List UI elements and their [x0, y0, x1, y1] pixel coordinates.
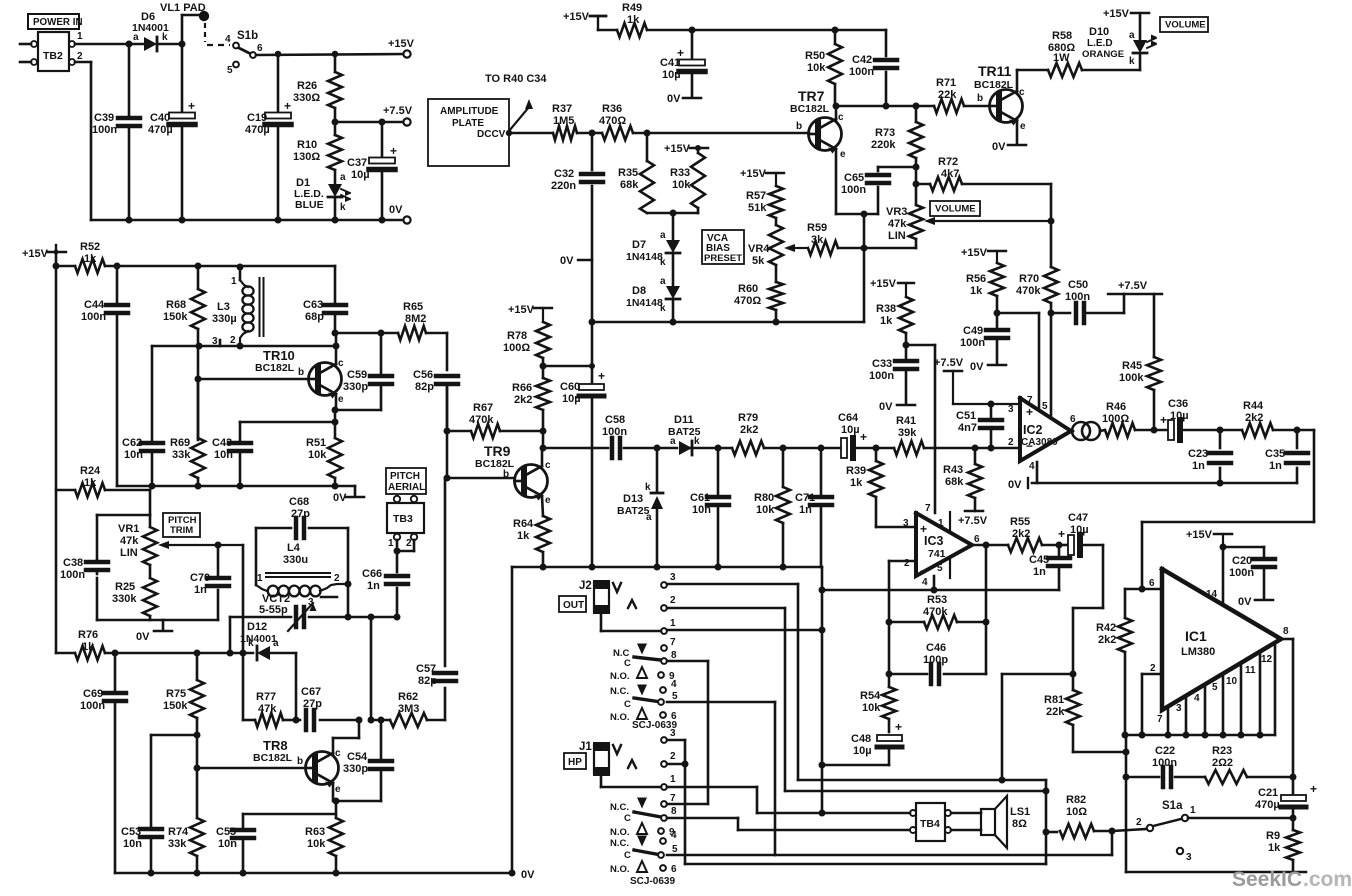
svg-text:100n: 100n: [1152, 757, 1177, 769]
wire: [672, 299, 675, 322]
svg-text:1M5: 1M5: [553, 115, 574, 127]
svg-text:470Ω: 470Ω: [734, 295, 761, 307]
wire: [785, 790, 1046, 793]
node watermark: [1232, 868, 1352, 891]
svg-text:R80: R80: [754, 492, 774, 504]
capacitor C23: [1188, 430, 1231, 483]
svg-text:470µ: 470µ: [1255, 799, 1280, 811]
resistor R80: [754, 448, 790, 567]
resistor R52: [56, 241, 335, 273]
svg-text:b: b: [298, 367, 304, 378]
wire: [1073, 545, 1103, 674]
wire: [667, 584, 798, 780]
junction: [1139, 586, 1146, 593]
svg-text:R45: R45: [1122, 360, 1142, 372]
wire: [446, 386, 449, 478]
svg-text:100k: 100k: [1119, 372, 1144, 384]
wire: [798, 779, 1046, 782]
svg-text:C39: C39: [94, 112, 114, 124]
svg-text:8: 8: [671, 650, 677, 661]
svg-text:3: 3: [670, 572, 676, 583]
svg-text:1: 1: [670, 774, 676, 785]
svg-text:150k: 150k: [163, 311, 188, 323]
svg-text:100n: 100n: [841, 184, 866, 196]
svg-text:10µ: 10µ: [1070, 524, 1089, 536]
svg-text:22k: 22k: [1046, 706, 1065, 718]
junction: [345, 581, 375, 621]
svg-text:C40: C40: [150, 112, 170, 124]
svg-text:k: k: [340, 202, 346, 213]
svg-text:a: a: [340, 172, 346, 183]
svg-text:TR11: TR11: [978, 63, 1012, 79]
svg-text:e: e: [840, 149, 846, 160]
svg-text:5: 5: [937, 563, 943, 574]
node 0V: [992, 141, 1026, 153]
svg-text:C59: C59: [347, 369, 367, 381]
wire: [972, 544, 986, 547]
svg-text:100n: 100n: [60, 569, 85, 581]
diode D13: [617, 448, 663, 567]
svg-text:R59: R59: [807, 222, 827, 234]
wire: [667, 661, 708, 804]
svg-text:100n: 100n: [849, 66, 874, 78]
wire pin7: [1157, 707, 1168, 735]
junction: [196, 343, 340, 350]
resistor R78: [503, 322, 550, 366]
svg-text:R26: R26: [297, 80, 317, 92]
svg-text:C50: C50: [1068, 279, 1088, 291]
junction: [112, 650, 247, 657]
connector TB4: [910, 803, 951, 841]
transistor TR9: [475, 443, 551, 506]
junction: [1290, 815, 1297, 822]
wire pin8: [1281, 626, 1293, 777]
junction: [1217, 480, 1224, 487]
svg-text:L4: L4: [287, 542, 301, 554]
svg-text:AERIAL: AERIAL: [388, 482, 425, 493]
junction: [540, 428, 547, 452]
resistor R43: [943, 448, 982, 511]
svg-text:7: 7: [670, 637, 676, 648]
svg-text:IC1: IC1: [1185, 628, 1207, 644]
capacitor C55: [216, 814, 336, 873]
svg-text:+: +: [1310, 782, 1317, 796]
svg-text:LS1: LS1: [1010, 806, 1030, 818]
svg-text:1W: 1W: [1053, 52, 1070, 64]
capacitor C67: [296, 686, 359, 730]
svg-text:C68: C68: [289, 496, 309, 508]
svg-text:6: 6: [671, 864, 677, 875]
LED D1: [294, 172, 351, 220]
node VOLUME label: [930, 201, 980, 216]
wire pin6: [1125, 578, 1162, 589]
wire: [397, 540, 414, 551]
resistor R25: [112, 578, 157, 620]
junction: [670, 210, 677, 217]
wire 0V rail: [1126, 871, 1306, 874]
svg-text:R62: R62: [398, 691, 418, 703]
svg-text:C44: C44: [84, 299, 105, 311]
svg-text:1: 1: [257, 573, 263, 584]
junction: [1070, 671, 1130, 756]
wire: [1112, 818, 1293, 831]
junction: [444, 428, 451, 482]
junction: [540, 363, 596, 370]
svg-text:b: b: [796, 121, 802, 132]
svg-text:4: 4: [1029, 461, 1035, 472]
svg-text:47k: 47k: [120, 535, 139, 547]
svg-text:R75: R75: [166, 688, 186, 700]
svg-text:R43: R43: [943, 464, 963, 476]
node +15V: [563, 11, 606, 30]
svg-text:2k2: 2k2: [1012, 528, 1030, 540]
svg-text:R55: R55: [1010, 516, 1030, 528]
svg-text:1k: 1k: [1268, 842, 1281, 854]
svg-text:TB3: TB3: [393, 513, 413, 525]
wire: [864, 214, 916, 322]
svg-text:TB2: TB2: [43, 50, 63, 62]
potentiometer VR1: [118, 515, 243, 578]
svg-text:R73: R73: [875, 127, 895, 139]
svg-text:10k: 10k: [308, 449, 327, 461]
svg-text:N.O.: N.O.: [610, 864, 630, 875]
svg-text:2: 2: [1008, 437, 1014, 448]
junction: [126, 41, 133, 48]
resistor R74: [168, 768, 204, 873]
node OUT label: [559, 596, 586, 612]
svg-text:R46: R46: [1106, 401, 1126, 413]
svg-text:ORANGE: ORANGE: [1082, 49, 1125, 60]
svg-text:0V: 0V: [992, 141, 1006, 153]
svg-text:C67: C67: [301, 686, 321, 698]
capacitor C43: [212, 422, 335, 486]
wire 0V line: [1008, 478, 1297, 491]
wire pins rail: [1125, 734, 1275, 737]
resistor R49: [598, 2, 886, 37]
junction: [913, 181, 920, 188]
svg-text:C20: C20: [1232, 555, 1252, 567]
junction: [983, 542, 990, 549]
svg-text:C60: C60: [560, 381, 580, 393]
resistor R70: [1016, 221, 1070, 416]
svg-text:4: 4: [922, 577, 928, 588]
svg-text:IC2: IC2: [1023, 423, 1043, 437]
speaker LS1: [951, 796, 1030, 848]
wire: [821, 567, 824, 813]
svg-text:220n: 220n: [551, 180, 576, 192]
switch J1 contacts: [610, 793, 678, 887]
resistor R82: [1046, 794, 1112, 838]
junction: [994, 310, 1001, 317]
resistor R81: [1044, 674, 1126, 752]
junction: [589, 319, 780, 326]
svg-text:R39: R39: [846, 465, 866, 477]
junction: [332, 119, 339, 126]
svg-text:C: C: [624, 658, 631, 669]
svg-text:100n: 100n: [80, 700, 105, 712]
svg-text:3: 3: [1008, 404, 1014, 415]
svg-text:741: 741: [928, 548, 946, 560]
svg-text:2k2: 2k2: [514, 394, 532, 406]
junction: [1043, 828, 1116, 836]
node 0V: [1238, 596, 1273, 608]
svg-text:2k2: 2k2: [1098, 634, 1116, 646]
svg-text:b: b: [297, 756, 303, 767]
svg-text:PLATE: PLATE: [452, 118, 484, 129]
wire: [230, 617, 371, 720]
svg-text:C46: C46: [926, 642, 946, 654]
svg-text:47k: 47k: [258, 703, 277, 715]
resistor R51: [306, 410, 342, 486]
svg-text:10n: 10n: [123, 838, 142, 850]
svg-text:c: c: [1019, 87, 1025, 98]
svg-text:C48: C48: [851, 733, 871, 745]
svg-text:10k: 10k: [672, 179, 691, 191]
svg-text:BAT25: BAT25: [617, 505, 650, 517]
svg-text:39k: 39k: [898, 427, 917, 439]
svg-text:1N4148: 1N4148: [626, 297, 663, 309]
svg-text:150k: 150k: [163, 700, 188, 712]
wire: [97, 620, 218, 643]
wire: [1142, 430, 1314, 589]
svg-text:+: +: [920, 522, 927, 536]
svg-text:R78: R78: [507, 330, 527, 342]
capacitor C22: [1152, 745, 1177, 787]
svg-text:2: 2: [77, 51, 83, 62]
junction: [53, 263, 202, 270]
svg-text:N.O.: N.O.: [610, 827, 630, 838]
node PITCH TRIM label: [163, 513, 200, 537]
svg-text:4k7: 4k7: [941, 168, 959, 180]
svg-text:5: 5: [672, 844, 678, 855]
svg-text:47k: 47k: [888, 218, 907, 230]
LED D10: [1082, 16, 1157, 70]
svg-text:C63: C63: [303, 299, 323, 311]
capacitor C64: [838, 412, 867, 458]
wire 0V rail: [75, 62, 405, 220]
capacitor C32: [551, 133, 603, 366]
capacitor C61: [690, 448, 729, 567]
svg-text:10µ: 10µ: [662, 69, 681, 81]
svg-text:J2: J2: [579, 580, 592, 592]
node VOLUME label: [1160, 17, 1208, 32]
svg-text:470k: 470k: [469, 414, 494, 426]
svg-text:R42: R42: [1096, 622, 1116, 634]
node 0V: [879, 401, 915, 413]
svg-text:C56: C56: [413, 369, 433, 381]
capacitor C48: [822, 720, 902, 765]
svg-text:100Ω: 100Ω: [503, 342, 530, 354]
junction: [332, 407, 339, 426]
potentiometer VR4: [748, 218, 808, 282]
capacitor C40: [148, 44, 195, 220]
svg-text:a: a: [660, 276, 666, 287]
svg-text:10k: 10k: [756, 504, 775, 516]
svg-text:C: C: [624, 850, 631, 861]
svg-text:4n7: 4n7: [958, 422, 977, 434]
svg-text:6: 6: [257, 43, 263, 54]
svg-text:R56: R56: [966, 273, 986, 285]
junction: [715, 445, 825, 452]
svg-text:+15V: +15V: [22, 248, 49, 260]
svg-text:+7.5V: +7.5V: [934, 357, 964, 369]
switch J2 contacts: [610, 637, 678, 731]
wire: [256, 528, 348, 617]
svg-text:R23: R23: [1212, 745, 1232, 757]
resistor R77: [243, 691, 300, 727]
svg-text:0V: 0V: [560, 255, 574, 267]
svg-text:C47: C47: [1068, 512, 1088, 524]
svg-text:1N4001: 1N4001: [240, 633, 277, 645]
svg-text:100n: 100n: [92, 124, 117, 136]
resistor R66: [512, 366, 550, 448]
junction: [931, 587, 938, 594]
junction: [1122, 732, 1264, 739]
svg-text:12: 12: [1261, 654, 1273, 665]
svg-text:C42: C42: [852, 54, 872, 66]
wire: [775, 854, 1112, 857]
junction: [972, 445, 995, 452]
svg-text:6: 6: [974, 534, 980, 545]
svg-text:7: 7: [1157, 714, 1163, 725]
node +7.5V: [1108, 280, 1162, 294]
svg-text:R77: R77: [256, 691, 276, 703]
svg-text:TRIM: TRIM: [170, 525, 193, 536]
junction: [540, 564, 787, 571]
svg-text:+15V: +15V: [740, 168, 767, 180]
capacitor C38: [60, 557, 108, 620]
svg-text:R57: R57: [746, 190, 766, 202]
svg-text:R82: R82: [1066, 794, 1086, 806]
wire: [836, 106, 878, 214]
capacitor C46: [889, 622, 986, 684]
svg-text:POWER IN: POWER IN: [33, 17, 83, 28]
svg-text:8: 8: [1283, 626, 1289, 637]
resistor R60: [734, 282, 783, 322]
resistor R62: [371, 691, 445, 727]
capacitor C70: [190, 542, 229, 621]
svg-text:TR8: TR8: [263, 738, 288, 753]
svg-text:R74: R74: [168, 826, 189, 838]
svg-text:C55: C55: [216, 826, 236, 838]
svg-text:c: c: [838, 112, 844, 123]
node +15V: [740, 168, 784, 186]
svg-text:330u: 330u: [283, 554, 308, 566]
svg-text:+15V: +15V: [508, 304, 535, 316]
svg-text:R76: R76: [78, 629, 98, 641]
svg-text:1: 1: [938, 518, 944, 529]
node +15V: [664, 143, 708, 155]
svg-text:0V: 0V: [521, 869, 535, 881]
svg-text:BAT25: BAT25: [668, 426, 701, 438]
junction: [819, 762, 826, 769]
svg-text:D11: D11: [674, 414, 694, 426]
svg-text:2: 2: [406, 538, 412, 549]
junction: [873, 445, 880, 452]
wire pin2 ground line: [822, 589, 1059, 592]
junction: [1151, 427, 1158, 434]
resistor R55: [986, 516, 1059, 552]
svg-text:5-55p: 5-55p: [259, 604, 288, 616]
svg-text:b: b: [977, 93, 983, 104]
svg-text:R64: R64: [513, 518, 534, 530]
svg-text:VOLUME: VOLUME: [1165, 20, 1206, 31]
svg-text:AMPLITUDE: AMPLITUDE: [440, 106, 499, 117]
node +15V: [508, 304, 552, 322]
svg-text:1k: 1k: [627, 14, 640, 26]
svg-text:R67: R67: [473, 402, 493, 414]
svg-text:470Ω: 470Ω: [599, 115, 626, 127]
junction: [913, 164, 920, 171]
junction: [149, 483, 339, 490]
svg-text:N.O.: N.O.: [610, 712, 630, 723]
capacitor C39: [92, 44, 140, 220]
svg-text:e: e: [335, 784, 341, 795]
svg-text:1n: 1n: [1192, 460, 1205, 472]
diode D11: [668, 414, 701, 455]
svg-text:+: +: [1160, 413, 1167, 427]
svg-text:2Ω2: 2Ω2: [1212, 757, 1233, 769]
capacitor C53: [121, 826, 162, 873]
resistor R9: [1266, 818, 1300, 872]
node +15V: [22, 245, 66, 260]
svg-text:C22: C22: [1155, 745, 1175, 757]
resistor R73: [871, 106, 923, 205]
junction: [886, 619, 990, 626]
svg-text:0V: 0V: [1008, 479, 1022, 491]
svg-text:0V: 0V: [1238, 596, 1252, 608]
svg-text:68k: 68k: [620, 179, 639, 191]
svg-text:TB4: TB4: [920, 818, 940, 830]
wire pin10: [1226, 664, 1241, 735]
svg-text:470k: 470k: [1016, 285, 1041, 297]
capacitor C51: [956, 404, 1002, 448]
svg-text:3M3: 3M3: [398, 703, 419, 715]
svg-text:R52: R52: [80, 241, 100, 253]
svg-text:10n: 10n: [214, 449, 233, 461]
resistor R65: [335, 301, 447, 370]
diode D6: [132, 11, 169, 51]
svg-text:DCCV: DCCV: [477, 129, 506, 140]
capacitor C41: [660, 30, 705, 105]
wire: [197, 720, 359, 801]
junction: [654, 445, 661, 452]
svg-text:+7.5V: +7.5V: [383, 105, 413, 117]
svg-text:100n: 100n: [1065, 291, 1090, 303]
svg-text:C51: C51: [956, 410, 976, 422]
svg-text:3: 3: [1186, 852, 1192, 863]
resistor R79: [732, 412, 764, 455]
node +7.5V: [958, 511, 988, 527]
svg-text:R53: R53: [927, 594, 947, 606]
wire: [685, 780, 1046, 864]
resistor R41: [894, 415, 924, 455]
junction: [589, 130, 596, 137]
wire: [198, 333, 336, 410]
wire: [997, 313, 1039, 409]
wire ground rail: [512, 566, 822, 569]
resistor R75: [163, 653, 204, 768]
capacitor C59: [335, 330, 392, 411]
capacitor C36: [1160, 398, 1220, 440]
capacitor C65: [841, 167, 916, 214]
svg-text:2: 2: [670, 751, 676, 762]
capacitor C57: [416, 478, 456, 720]
svg-text:3: 3: [903, 518, 909, 529]
svg-text:.com: .com: [1303, 868, 1352, 891]
svg-text:0V: 0V: [136, 631, 150, 643]
svg-text:C70: C70: [190, 572, 210, 584]
